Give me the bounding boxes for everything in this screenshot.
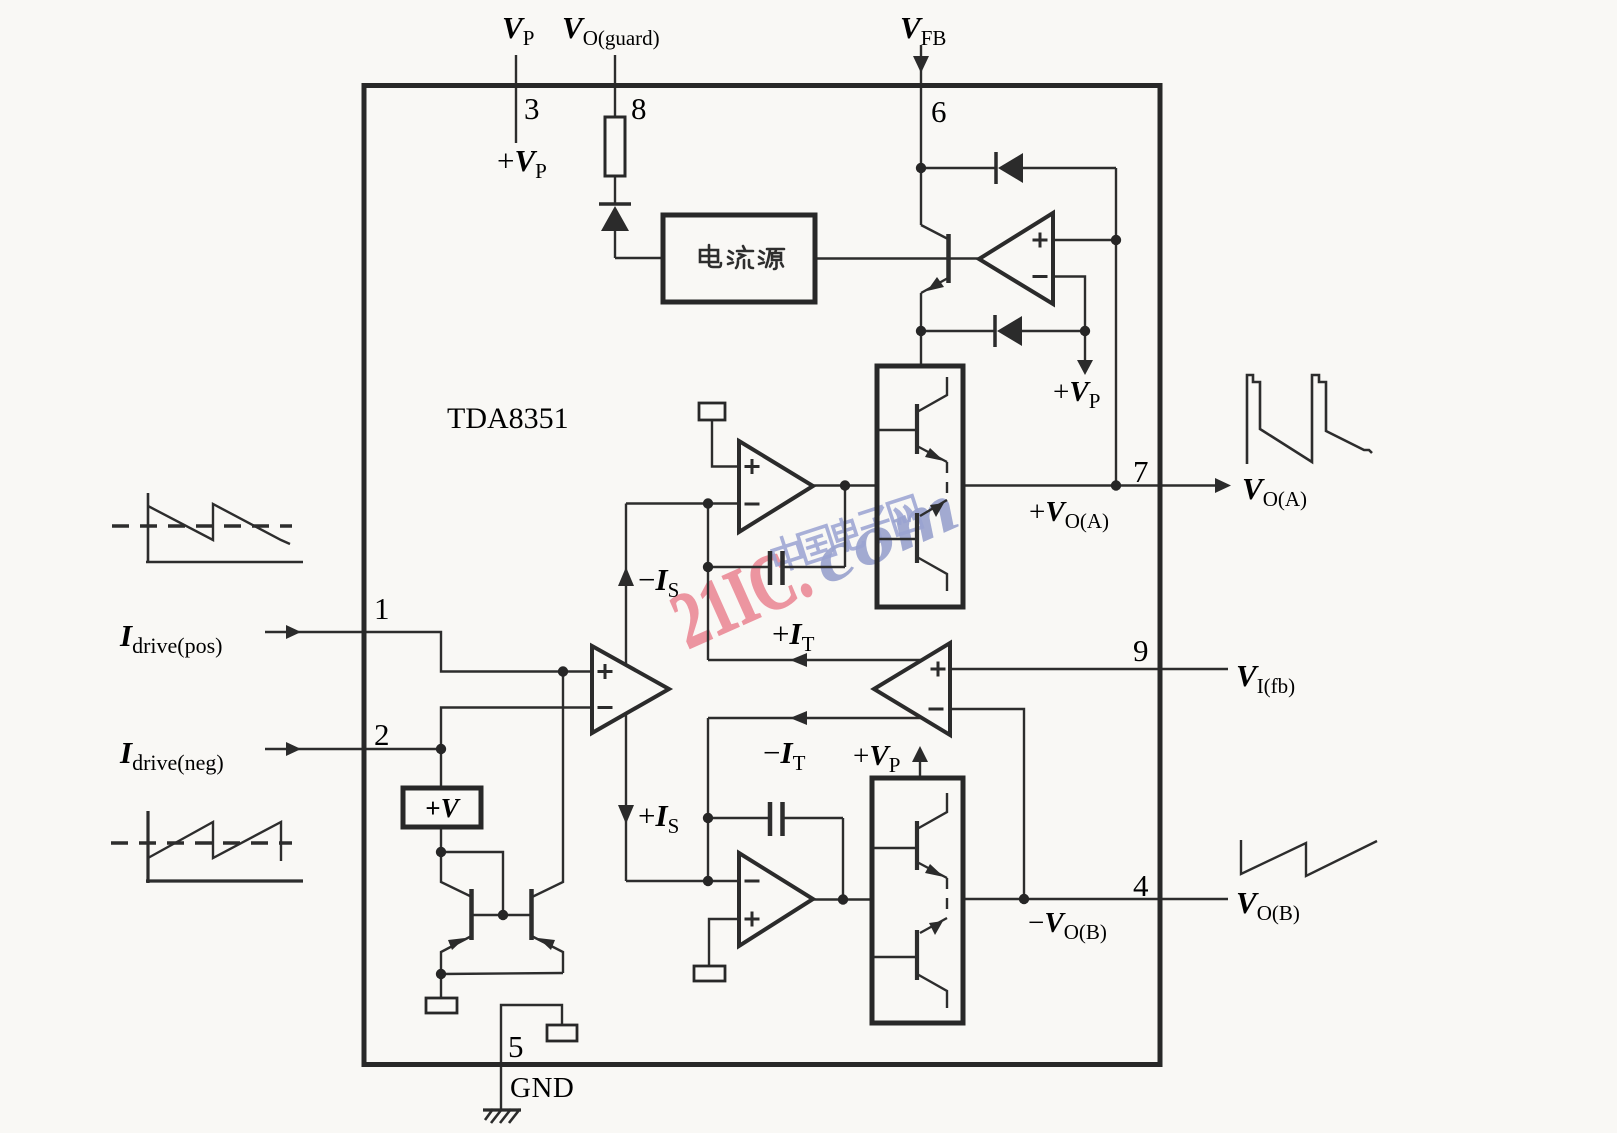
svg-text:+VP: +VP xyxy=(853,740,900,777)
svg-text:com: com xyxy=(801,469,969,600)
svg-text:−IT: −IT xyxy=(763,735,806,775)
svg-text:+IT: +IT xyxy=(772,616,815,656)
svg-text:+IS: +IS xyxy=(638,798,679,838)
svg-text:Idrive(neg): Idrive(neg) xyxy=(119,735,224,775)
svg-text:VP: VP xyxy=(502,10,534,50)
svg-text:−IS: −IS xyxy=(638,562,679,602)
svg-text:VO(B): VO(B) xyxy=(1236,885,1300,925)
svg-text:+VP: +VP xyxy=(1053,376,1100,413)
svg-text:2: 2 xyxy=(374,717,390,752)
svg-text:VI(fb): VI(fb) xyxy=(1236,658,1295,698)
svg-text:VO(A): VO(A) xyxy=(1242,471,1307,511)
svg-text:+VP: +VP xyxy=(497,143,547,183)
svg-text:VFB: VFB xyxy=(900,10,946,50)
svg-text:Idrive(pos): Idrive(pos) xyxy=(119,618,223,658)
svg-text:8: 8 xyxy=(631,91,647,126)
svg-text:7: 7 xyxy=(1133,454,1149,489)
svg-text:GND: GND xyxy=(510,1072,574,1104)
svg-text:9: 9 xyxy=(1133,633,1149,668)
svg-text:4: 4 xyxy=(1133,868,1149,903)
svg-text:1: 1 xyxy=(374,591,390,626)
svg-text:TDA8351: TDA8351 xyxy=(447,402,569,435)
svg-text:+V: +V xyxy=(425,793,460,823)
svg-text:+VO(A): +VO(A) xyxy=(1029,496,1109,533)
svg-text:−VO(B): −VO(B) xyxy=(1028,907,1107,944)
svg-text:3: 3 xyxy=(524,91,540,126)
svg-text:5: 5 xyxy=(508,1029,524,1064)
svg-text:VO(guard): VO(guard) xyxy=(562,10,660,50)
svg-text:6: 6 xyxy=(931,94,947,129)
